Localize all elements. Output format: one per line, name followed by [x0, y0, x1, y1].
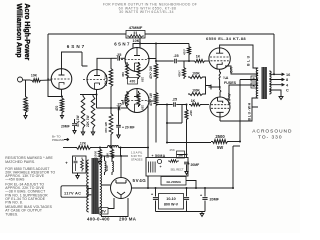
- label 6550 EL-34 KT-88: [206, 36, 246, 41]
- resistor 47K* 2W upper: [149, 44, 156, 80]
- resistor 47K* grid leak upper: [178, 61, 190, 79]
- resistor 17K: [75, 142, 92, 150]
- triode V1 6SN7 input: [47, 69, 72, 90]
- wire V1 plate up: [62, 52, 83, 69]
- svg-text:10K: 10K: [31, 74, 38, 78]
- resistor 450 driver upper: [121, 62, 129, 79]
- resistor 1K grid stop lower: [189, 99, 209, 106]
- svg-text:.25: .25: [116, 53, 121, 57]
- ground V1 cathode: [60, 114, 63, 119]
- svg-text:50MA: 50MA: [155, 154, 166, 158]
- transformer T2 primary coil: [256, 68, 258, 98]
- wire HV to rectifier: [102, 156, 129, 217]
- wire rectifier output: [138, 177, 233, 189]
- wire bias vertical: [148, 105, 187, 158]
- bias rectifier box: [146, 158, 188, 177]
- wire driver lower out: [148, 101, 173, 105]
- svg-text:GR-W: GR-W: [228, 93, 232, 105]
- transformer T1 core: [92, 158, 99, 214]
- svg-text:470: 470: [55, 105, 59, 111]
- svg-text:20MF: 20MF: [61, 124, 70, 128]
- svg-text:20MF: 20MF: [191, 163, 200, 167]
- resistor 47K 1W splitter B: [86, 95, 95, 130]
- ground splitter A: [81, 130, 84, 136]
- label 117V AC: [61, 186, 88, 197]
- svg-text:117V AC: 117V AC: [64, 190, 81, 195]
- svg-text:100K: 100K: [94, 150, 98, 158]
- resistor 1MEG: [24, 80, 30, 114]
- wire feedback 10K node: [139, 38, 141, 44]
- svg-text:GR: GR: [230, 67, 234, 73]
- meter 50MA: [152, 154, 162, 164]
- ground splitter B: [91, 130, 94, 136]
- winding 6.3V A: [105, 156, 109, 175]
- svg-text:5W: 5W: [217, 145, 223, 150]
- label 5V4G: [133, 178, 147, 183]
- resistor 1K grid stop upper: [186, 55, 209, 63]
- resistor 100K fb upper: [188, 72, 204, 79]
- resistor 47K* upper zig: [154, 62, 158, 80]
- fuse V5 quarter amp: [219, 69, 221, 87]
- svg-text:+: +: [152, 154, 154, 158]
- svg-text:450: 450: [121, 72, 125, 77]
- svg-text:10K: 10K: [133, 39, 140, 43]
- transformer T2 secondary coil: [269, 71, 271, 94]
- ground secondary: [279, 94, 283, 100]
- label 400-0-400: [87, 216, 137, 221]
- resistor 470 box driver: [128, 78, 138, 85]
- label BLU-WH lower: [248, 102, 252, 120]
- note text top: [103, 2, 197, 14]
- rectifier V7 5V4G: [111, 156, 139, 199]
- wire feedback left drop: [48, 34, 62, 97]
- fuse V6 quarter amp: [219, 87, 221, 97]
- svg-text:SEL RECT: SEL RECT: [170, 167, 183, 171]
- transformer T1 HV secondary: [100, 158, 102, 215]
- svg-text:—45V BIAS: —45V BIAS: [5, 178, 25, 182]
- wire splitter bus: [80, 90, 97, 109]
- wire feedback top: [48, 34, 274, 74]
- svg-text:C: C: [286, 89, 289, 93]
- capacitor .25 output lower: [172, 98, 182, 107]
- svg-text:47K 1W: 47K 1W: [104, 122, 108, 133]
- svg-text:5V: 5V: [101, 209, 106, 214]
- wire screen upper GR: [225, 66, 258, 74]
- capacitor 20MF mid: [116, 108, 134, 138]
- wire tap C: [270, 89, 290, 94]
- svg-text:4H-200MA: 4H-200MA: [166, 180, 182, 184]
- svg-text:STAGES: STAGES: [131, 158, 143, 162]
- choke 4H-200MA: [161, 177, 196, 189]
- svg-text:20MF: 20MF: [210, 198, 220, 202]
- svg-text:¼A: ¼A: [223, 76, 229, 80]
- svg-text:430: 430: [121, 100, 125, 105]
- svg-text:47K* 1W: 47K* 1W: [149, 93, 153, 106]
- svg-text:100K: 100K: [192, 89, 200, 93]
- resistor 47K 1W splitter A: [76, 95, 85, 130]
- svg-text:500K: 500K: [25, 103, 29, 111]
- svg-text:BLU-WH: BLU-WH: [248, 102, 252, 120]
- svg-text:220: 220: [141, 105, 145, 110]
- capacitor 47MMF with resistor 10K feedback network: [126, 25, 145, 43]
- resistor 220 driver upper: [137, 62, 145, 82]
- box 5W bias: [177, 151, 185, 158]
- svg-text:Williamson Amp: Williamson Amp: [15, 4, 22, 58]
- svg-text:47K* 2W: 47K* 2W: [149, 66, 153, 79]
- svg-text:800 W-V: 800 W-V: [164, 203, 179, 207]
- svg-text:ACROSOUND: ACROSOUND: [252, 128, 292, 134]
- svg-text:100K: 100K: [192, 72, 200, 76]
- svg-text:+ 20 MF: + 20 MF: [122, 125, 135, 129]
- svg-text:TO- 330: TO- 330: [258, 134, 283, 140]
- wire tap 16: [270, 73, 291, 77]
- box 10-10 800WV: [159, 194, 184, 210]
- transformer T1 primary coil: [87, 160, 89, 212]
- resistor 100K psu: [94, 148, 102, 165]
- svg-text:470*: 470*: [183, 48, 187, 55]
- capacitor 10MF a: [151, 188, 158, 212]
- note text left: [5, 156, 55, 216]
- svg-text:22K 1W: 22K 1W: [104, 74, 108, 86]
- wire bias links: [148, 121, 187, 188]
- choke filter: [92, 145, 148, 147]
- svg-text:6.3V: 6.3V: [105, 165, 109, 171]
- svg-text:6SN7: 6SN7: [67, 44, 87, 49]
- winding 6.3V B: [112, 155, 114, 175]
- input jack: [18, 77, 23, 82]
- potentiometer 20K bias: [65, 156, 88, 179]
- capacitor 10MF b: [184, 188, 189, 212]
- wire V5 plate to transformer: [220, 45, 258, 68]
- resistor 2500 5W: [167, 134, 240, 150]
- capacitor .25 output upper: [173, 54, 186, 63]
- triode V4 driver lower: [121, 89, 149, 113]
- svg-text:220: 220: [141, 77, 145, 82]
- resistor 470 V1 cathode: [55, 97, 64, 115]
- wire fil: [105, 155, 129, 157]
- wire 100K join: [204, 77, 211, 94]
- svg-text:+: +: [159, 165, 161, 169]
- label fuses: [223, 76, 237, 85]
- resistor 470* grid upper: [156, 44, 191, 62]
- ground input: [24, 114, 27, 119]
- svg-text:Acro High-Power: Acro High-Power: [23, 4, 30, 61]
- capacitor 20MF bias: [184, 152, 199, 175]
- wire driver plates: [133, 44, 156, 48]
- resistor 430 driver lower: [121, 91, 129, 107]
- svg-text:FUSES: FUSES: [224, 81, 237, 85]
- label ACROSOUND TO-330: [252, 128, 292, 140]
- wire centre tap R: [240, 76, 258, 142]
- svg-text:16: 16: [286, 73, 290, 77]
- resistor 100K bleeder: [104, 108, 113, 148]
- svg-text:8: 8: [286, 78, 288, 82]
- triode V3 driver upper: [121, 48, 149, 72]
- svg-text:470: 470: [130, 80, 136, 84]
- svg-text:5M: 5M: [178, 153, 183, 157]
- triode V2 phase splitter: [83, 70, 107, 90]
- label 50MA: [155, 154, 166, 158]
- transformer T2 core: [262, 67, 268, 99]
- svg-text:.25: .25: [172, 98, 177, 102]
- wire driver upper out: [148, 59, 174, 62]
- resistor 220 driver lower: [137, 91, 145, 110]
- svg-text:47K*: 47K*: [178, 69, 182, 77]
- tetrode V5 output upper: [209, 48, 230, 69]
- wire b plus left: [63, 147, 75, 149]
- wire 117V lower: [88, 194, 91, 196]
- svg-text:2500: 2500: [215, 134, 225, 139]
- label B+ preamp: [52, 135, 69, 143]
- svg-text:MATCHED PAIRS.: MATCHED PAIRS.: [5, 160, 35, 164]
- svg-text:430*: 430*: [189, 110, 193, 117]
- resistor 470* grid lower: [182, 105, 193, 122]
- svg-text:PREAMP: PREAMP: [52, 138, 65, 142]
- wire V6 plate to transformer: [220, 98, 258, 121]
- svg-text:47MMF: 47MMF: [129, 25, 143, 30]
- svg-text:400-0-400: 400-0-400: [87, 216, 110, 221]
- wire tap 8: [270, 78, 289, 82]
- svg-text:1K: 1K: [191, 99, 196, 103]
- svg-text:TUBES.: TUBES.: [5, 212, 18, 216]
- svg-text:1K: 1K: [196, 55, 201, 59]
- svg-text:5V4G: 5V4G: [133, 178, 147, 183]
- wire 117V upper: [88, 188, 91, 190]
- svg-text:25K: 25K: [170, 148, 175, 152]
- svg-text:20K: 20K: [85, 163, 89, 169]
- ground filter: [156, 212, 206, 217]
- resistor 100K fb lower: [188, 89, 204, 96]
- svg-text:6SN7: 6SN7: [114, 42, 131, 47]
- wire screen lower GR-W: [225, 85, 258, 105]
- svg-text:10K: 10K: [106, 152, 110, 158]
- resistor 22K 1W splitter plate: [104, 58, 113, 108]
- svg-text:BLU: BLU: [247, 54, 251, 66]
- wire V1 cathode: [61, 89, 63, 96]
- wire V1 plate to V2 grid: [82, 52, 88, 66]
- svg-text:200 MA: 200 MA: [119, 216, 137, 221]
- wire V2 plate up: [97, 58, 111, 69]
- wire b plus vertical right: [233, 146, 240, 188]
- capacitor 20MF out: [200, 188, 220, 212]
- resistor 10K psu b: [106, 148, 114, 163]
- label BLU: [247, 54, 251, 66]
- label 25K: [170, 148, 175, 152]
- label 5V: [99, 208, 108, 215]
- resistor 47K* lower zig: [149, 80, 158, 143]
- capacitor .25 lower coupling: [97, 103, 128, 111]
- svg-text:.25: .25: [173, 54, 178, 58]
- svg-text:30 WATTS WITH 6CA7/EL-34: 30 WATTS WITH 6CA7/EL-34: [119, 10, 174, 14]
- label 6SN7 driver: [114, 42, 131, 47]
- label fil: [131, 151, 143, 162]
- wire tap 4: [270, 83, 290, 87]
- wire input to V1 grid: [42, 79, 51, 81]
- resistor 10K input: [23, 74, 43, 82]
- svg-text:PIN NO. 8.: PIN NO. 8.: [5, 201, 23, 205]
- ground fuses: [209, 85, 221, 90]
- label 6SN7 V1: [67, 44, 87, 49]
- svg-text:10-10: 10-10: [166, 197, 175, 201]
- tetrode V6 output lower: [210, 97, 230, 117]
- svg-text:17K: 17K: [80, 142, 87, 146]
- svg-text:22K 1W: 22K 1W: [86, 115, 90, 127]
- svg-text:6550 EL-34 KT-88: 6550 EL-34 KT-88: [206, 36, 246, 41]
- title text: [15, 4, 30, 61]
- capacitor .25 upper coupling: [111, 53, 126, 60]
- capacitor 20MF preamp: [61, 119, 81, 134]
- wire choke node: [120, 148, 122, 157]
